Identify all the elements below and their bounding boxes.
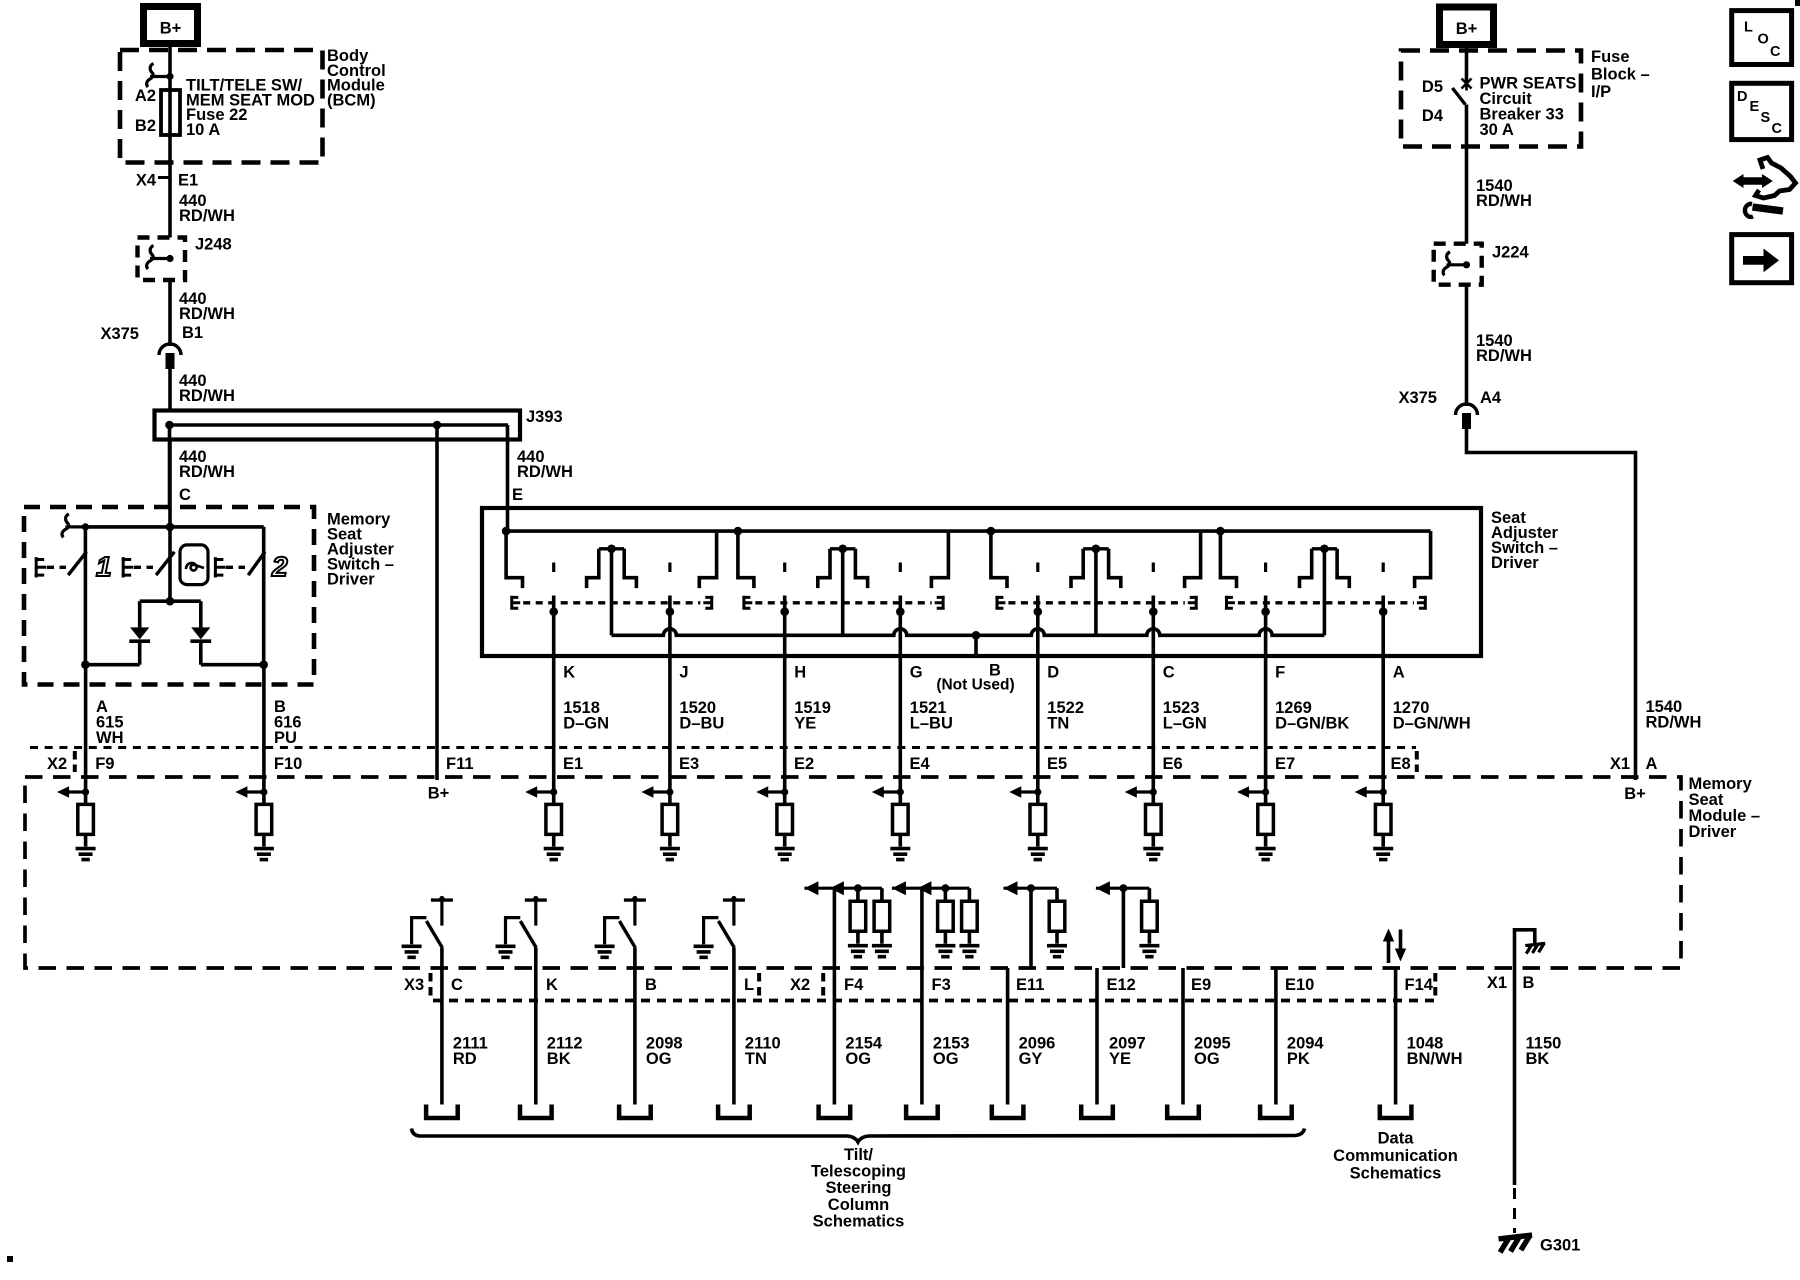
svg-text:F: F (1275, 664, 1285, 682)
svg-text:Telescoping: Telescoping (811, 1163, 906, 1181)
terminal cup (718, 1105, 750, 1119)
diode junction (166, 597, 175, 606)
svg-text:OG: OG (933, 1050, 959, 1068)
svg-text:Block –: Block – (1591, 66, 1650, 84)
wire diode D1 to node A (85, 663, 139, 667)
svg-text:RD/WH: RD/WH (179, 387, 235, 405)
svg-text:BK: BK (547, 1050, 571, 1068)
output X1-B internal ground (1515, 930, 1535, 1185)
terminal H wire 1519 YE (783, 656, 787, 792)
svg-text:1: 1 (96, 551, 112, 582)
svg-text:X375: X375 (100, 325, 139, 343)
clip node in BCM (147, 64, 170, 88)
output F3 with twin resistors to ground (892, 887, 970, 890)
switch group 2 movable contact (899, 563, 902, 573)
J393 internal bus (170, 423, 509, 427)
page corner mark (1795, 0, 1800, 6)
module input E7: ground (1264, 834, 1268, 846)
svg-text:S: S (1761, 110, 1771, 126)
switch group 4 movable contact (1382, 563, 1385, 573)
Body Control Module (BCM) dashed box (120, 50, 323, 163)
bus junction dot group 1 (502, 527, 511, 536)
module input E4: ground (898, 834, 902, 846)
svg-text:RD/WH: RD/WH (179, 463, 235, 481)
switch group 4 left fixed contact (1220, 531, 1236, 588)
svg-text:E6: E6 (1163, 755, 1183, 773)
diode D1 (138, 601, 142, 627)
terminal J wire 1520 D–BU (668, 656, 672, 792)
svg-text:D–GN: D–GN (563, 715, 609, 733)
svg-text:RD/WH: RD/WH (1646, 714, 1702, 732)
svg-text:YE: YE (794, 715, 816, 733)
module input F9: pull resistor (84, 792, 88, 804)
svg-text:WH: WH (96, 729, 124, 747)
svg-text:2: 2 (271, 551, 288, 582)
module input F10: pull resistor (262, 792, 266, 804)
svg-text:E12: E12 (1107, 976, 1136, 994)
switch group 2 left fixed contact (738, 531, 754, 588)
Memory Seat Module - Driver dashed box (25, 777, 1681, 968)
svg-text:Schematics: Schematics (813, 1212, 905, 1230)
module input E6: sense arrow (1136, 790, 1153, 793)
svg-text:10 A: 10 A (186, 121, 220, 139)
svg-text:PU: PU (274, 729, 297, 747)
svg-text:E7: E7 (1275, 755, 1295, 773)
svg-text:E5: E5 (1047, 755, 1067, 773)
LOC reference box (1732, 11, 1792, 65)
svg-text:GY: GY (1019, 1050, 1043, 1068)
module input E8: sense arrow (1366, 790, 1383, 793)
terminal cup (906, 1105, 938, 1119)
svg-text:RD/WH: RD/WH (179, 305, 235, 323)
svg-text:OG: OG (845, 1050, 871, 1068)
terminal B wire 616 PU (262, 665, 266, 792)
forward arrow box (1732, 235, 1792, 283)
svg-text:J248: J248 (195, 236, 232, 254)
diode D2 (199, 601, 203, 627)
circuit breaker 33 (PWR SEATS 30 A) (1452, 88, 1465, 105)
svg-text:D–BU: D–BU (679, 715, 724, 733)
terminal K wire 1518 D–GN (552, 656, 556, 792)
terminal D wire 1522 TN (1036, 656, 1040, 792)
svg-text:E3: E3 (679, 755, 699, 773)
svg-text:Driver: Driver (1491, 554, 1539, 572)
wire X375 to memory seat module X1-A (1540 RD/WH) (1467, 429, 1636, 780)
terminal cup (426, 1105, 458, 1119)
svg-text:D4: D4 (1422, 107, 1444, 125)
X2 separator (821, 973, 825, 997)
output E11 with resistor to ground (1004, 887, 1058, 890)
B+ power terminal (left) (144, 7, 198, 44)
svg-text:E8: E8 (1391, 755, 1411, 773)
svg-text:B: B (1523, 974, 1535, 992)
page bottom-left mark (7, 1256, 13, 1262)
svg-text:Steering: Steering (825, 1179, 891, 1197)
module input E1: pull resistor (552, 792, 556, 804)
svg-text:F14: F14 (1405, 976, 1434, 994)
svg-text:G301: G301 (1540, 1237, 1580, 1255)
svg-text:L–BU: L–BU (910, 715, 953, 733)
svg-text:B+: B+ (1456, 20, 1478, 38)
internal supply line node C (85, 525, 263, 529)
terminal A wire 615 WH (84, 665, 88, 792)
svg-text:X2: X2 (47, 755, 67, 773)
svg-text:J393: J393 (526, 408, 563, 426)
wire J393 to F11 (435, 425, 439, 780)
J393 splice pack box (155, 411, 521, 440)
switch group 2 center contact (838, 545, 847, 554)
svg-text:Column: Column (828, 1196, 889, 1214)
svg-text:Driver: Driver (327, 571, 375, 589)
switch group 1 movable contact (552, 563, 555, 573)
svg-text:C: C (179, 486, 191, 504)
Seat Adjuster Switch - Driver box (482, 508, 1481, 656)
svg-text:30 A: 30 A (1480, 121, 1514, 139)
svg-text:H: H (794, 664, 806, 682)
X3 separator (429, 973, 433, 997)
clip node (62, 514, 85, 538)
terminal cup (520, 1105, 552, 1119)
switch group 2 linkage (742, 596, 752, 610)
svg-text:F10: F10 (274, 755, 302, 773)
J248 splice symbol (147, 246, 170, 270)
module input E3: sense arrow (653, 790, 670, 793)
switch group 1 left fixed contact (506, 531, 522, 588)
switch group 4 center contact (1320, 545, 1329, 554)
module input E4: pull resistor (898, 792, 902, 804)
bus junction dot group 4 (1216, 527, 1225, 536)
junction dot (433, 421, 442, 430)
junction dot C (166, 523, 175, 532)
seat icon (180, 545, 208, 585)
switch group 3 movable contact (1152, 563, 1155, 573)
ground G301 wire 1150 BK (1513, 1188, 1516, 1233)
svg-text:E4: E4 (910, 755, 931, 773)
svg-text:O: O (1758, 32, 1769, 48)
module input E2: pull resistor (783, 792, 787, 804)
svg-text:RD/WH: RD/WH (1476, 347, 1532, 365)
svg-text:RD/WH: RD/WH (179, 207, 235, 225)
terminal G wire 1521 L–BU (898, 656, 902, 792)
svg-text:B1: B1 (182, 324, 203, 342)
svg-text:B2: B2 (135, 117, 156, 135)
bus junction dot group 2 (734, 527, 743, 536)
memory set switch (center) (168, 440, 172, 602)
terminal cup (1167, 1105, 1199, 1119)
Memory Seat Adjuster Switch - Driver dashed box (24, 507, 314, 685)
svg-text:F11: F11 (446, 755, 474, 773)
module input E6: ground (1152, 834, 1156, 846)
svg-text:OG: OG (1194, 1050, 1220, 1068)
svg-text:E11: E11 (1016, 976, 1044, 994)
J224 splice dashed box (1434, 244, 1482, 285)
module input E8: ground (1381, 834, 1385, 846)
wire diode D2 to node B (201, 663, 264, 667)
output B switch to ground (624, 898, 646, 901)
terminal C wire 1523 L–GN (1152, 656, 1156, 792)
switch group 4 linkage (1225, 596, 1235, 610)
switch group 3 right fixed contact (1185, 531, 1201, 588)
svg-text:YE: YE (1109, 1050, 1131, 1068)
switch group 2 movable contact (783, 563, 786, 573)
output L switch to ground (723, 898, 745, 901)
svg-text:X1: X1 (1610, 755, 1630, 773)
J248 splice dashed box (138, 238, 186, 281)
terminal cup (1260, 1105, 1292, 1119)
module input F9: sense arrow (69, 790, 86, 793)
svg-text:K: K (546, 976, 558, 994)
svg-text:L–GN: L–GN (1163, 715, 1207, 733)
module input E5: pull resistor (1036, 792, 1040, 804)
svg-text:D: D (1047, 664, 1059, 682)
svg-text:Communication: Communication (1333, 1147, 1458, 1165)
svg-text:E: E (512, 486, 523, 504)
wire B+ to fuse (168, 44, 172, 238)
connector row X2 line (30, 746, 1416, 749)
svg-text:A4: A4 (1480, 389, 1502, 407)
wire J393 to switch C (440 RD/WH) (168, 425, 172, 507)
svg-text:D5: D5 (1422, 78, 1443, 96)
terminal cup (1081, 1105, 1113, 1119)
module input F9: ground (84, 834, 88, 846)
module input E7: sense arrow (1249, 790, 1266, 793)
module input F10: sense arrow (247, 790, 264, 793)
junction dot (165, 421, 174, 430)
switch group 1 movable contact (668, 563, 671, 573)
output C switch to ground (431, 898, 453, 901)
module input E7: pull resistor (1264, 792, 1268, 804)
switch group 3 linkage (995, 596, 1005, 610)
module input F10: ground (262, 834, 266, 846)
output E10 wire (1274, 968, 1278, 1105)
module input E3: pull resistor (668, 792, 672, 804)
switch group 1 right fixed contact (699, 531, 716, 588)
svg-text:C: C (1772, 121, 1783, 137)
svg-text:PK: PK (1287, 1050, 1310, 1068)
output F14 serial data arrows (1387, 940, 1391, 963)
svg-text:BK: BK (1526, 1050, 1550, 1068)
X2 separator (73, 751, 77, 772)
common return line to terminal B (612, 629, 1325, 635)
svg-text:(BCM): (BCM) (327, 91, 376, 109)
wire J224 to X375 (1540 RD/WH) (1465, 285, 1469, 406)
switch group 4 movable contact (1264, 563, 1267, 573)
svg-text:TN: TN (1047, 715, 1069, 733)
output E9 wire (1181, 968, 1185, 1105)
connector row line (bottom) (433, 999, 1435, 1003)
svg-text:X1: X1 (1487, 974, 1507, 992)
F14/X1 separator (1433, 973, 1437, 997)
output K switch to ground (525, 898, 547, 901)
svg-text:E10: E10 (1285, 976, 1314, 994)
wire J248 to X375 (168, 280, 172, 346)
svg-text:E2: E2 (794, 755, 814, 773)
switch group 3 center contact (1092, 545, 1101, 554)
svg-text:X375: X375 (1398, 389, 1437, 407)
terminal F wire 1269 D–GN/BK (1264, 656, 1268, 792)
switch group 3 left fixed contact (991, 531, 1007, 588)
internal supply bus (506, 529, 1431, 533)
svg-text:A: A (1646, 755, 1658, 773)
svg-text:E: E (1750, 99, 1760, 115)
switch group 2 right fixed contact (931, 531, 948, 588)
wire J393 to seat adjuster switch E (440 RD/WH) (506, 425, 510, 531)
DESC reference box (1732, 83, 1792, 139)
svg-text:G: G (910, 664, 923, 682)
svg-text:F3: F3 (932, 976, 951, 994)
module input E4: sense arrow (883, 790, 900, 793)
svg-text:I/P: I/P (1591, 83, 1611, 101)
switch group 3 movable contact (1036, 563, 1039, 573)
svg-text:OG: OG (646, 1050, 672, 1068)
svg-text:RD/WH: RD/WH (517, 463, 573, 481)
module input E1: ground (552, 834, 556, 846)
svg-text:A2: A2 (135, 87, 156, 105)
ground G301 (1499, 1235, 1533, 1252)
svg-text:Schematics: Schematics (1350, 1165, 1442, 1183)
svg-text:B: B (645, 976, 657, 994)
switch group 1 linkage (510, 596, 520, 610)
switch group 1 center contact (607, 545, 616, 554)
module input E5: ground (1036, 834, 1040, 846)
Fuse Block - I/P dashed box (1401, 51, 1581, 147)
svg-text:F9: F9 (95, 755, 114, 773)
svg-text:X3: X3 (404, 976, 424, 994)
svg-text:Driver: Driver (1689, 823, 1737, 841)
module input E1: sense arrow (537, 790, 554, 793)
svg-text:B+: B+ (428, 785, 450, 803)
brace to Tilt/Telescoping Steering Column Schematics (412, 1129, 1305, 1143)
svg-text:Tilt/: Tilt/ (844, 1146, 873, 1164)
svg-text:B+: B+ (1624, 785, 1646, 803)
svg-text:A: A (1393, 664, 1405, 682)
svg-text:RD: RD (453, 1050, 477, 1068)
svg-text:D–GN/WH: D–GN/WH (1393, 715, 1471, 733)
svg-text:C: C (1770, 44, 1781, 60)
svg-text:D–GN/BK: D–GN/BK (1275, 715, 1349, 733)
module input E8: pull resistor (1381, 792, 1385, 804)
svg-text:B+: B+ (160, 20, 182, 38)
svg-text:C: C (451, 976, 463, 994)
bus junction dot group 3 (987, 527, 996, 536)
wire breaker to J224 (1540 RD/WH) (1465, 146, 1469, 244)
B+ power terminal (right) (1440, 7, 1494, 45)
fuse 22 (TILT/TELE SW/MEM SEAT MOD Fuse 22 10 A) (161, 90, 180, 135)
svg-text:E1: E1 (563, 755, 583, 773)
svg-text:Data: Data (1378, 1130, 1415, 1148)
wire X375 to J393 (168, 369, 172, 411)
wire B+ to breaker (1465, 45, 1469, 83)
svg-text:E1: E1 (178, 172, 198, 190)
svg-text:J224: J224 (1492, 244, 1530, 262)
svg-text:F4: F4 (844, 976, 864, 994)
J224 splice symbol (1443, 252, 1466, 275)
output F4 with twin resistors to ground (804, 887, 882, 890)
memory switch 1 (84, 527, 88, 665)
svg-text:Fuse: Fuse (1591, 48, 1630, 66)
module input E3: ground (668, 834, 672, 846)
output E12 with resistor to ground (1096, 887, 1150, 890)
svg-text:TN: TN (745, 1050, 767, 1068)
svg-text:BN/WH: BN/WH (1407, 1050, 1463, 1068)
svg-text:J: J (679, 664, 688, 682)
module input E2: sense arrow (768, 790, 785, 793)
svg-text:C: C (1163, 664, 1175, 682)
module input E6: pull resistor (1152, 792, 1156, 804)
switch group 4 right fixed contact (1415, 531, 1431, 588)
terminal cup (992, 1105, 1024, 1119)
svg-text:(Not Used): (Not Used) (936, 677, 1014, 694)
service/arrows icon (1733, 174, 1773, 188)
terminal cup (1380, 1105, 1412, 1119)
terminal A wire 1270 D–GN/WH (1381, 656, 1385, 792)
svg-text:X2: X2 (790, 976, 810, 994)
svg-text:RD/WH: RD/WH (1476, 192, 1532, 210)
svg-text:E9: E9 (1191, 976, 1211, 994)
terminal cup (619, 1105, 651, 1119)
svg-text:K: K (563, 664, 575, 682)
X3/X2 separator (757, 973, 761, 997)
module input E2: ground (783, 834, 787, 846)
memory switch 2 (262, 527, 266, 665)
module input E5: sense arrow (1021, 790, 1038, 793)
connector X4 / E1 tick (158, 176, 170, 179)
svg-text:L: L (744, 976, 754, 994)
svg-text:L: L (1744, 20, 1753, 36)
X2/X1 separator (1415, 751, 1419, 772)
svg-text:D: D (1737, 89, 1747, 105)
svg-text:X4: X4 (136, 172, 157, 190)
terminal cup (819, 1105, 851, 1119)
terminal B stub (Not Used) (972, 631, 981, 640)
